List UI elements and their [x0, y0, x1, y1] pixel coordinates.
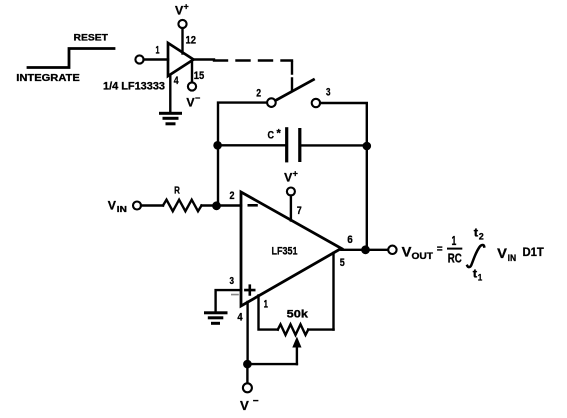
- pin number 12 (U2): [186, 34, 197, 46]
- potentiometer 50k: [278, 324, 308, 335]
- svg-text:V: V: [240, 398, 249, 413]
- svg-text:3: 3: [326, 87, 331, 99]
- fraction bar: [448, 248, 461, 250]
- minus sign (inverting input): [249, 204, 257, 207]
- switch S1 terminal 3: [312, 99, 320, 107]
- label INTEGRATE: [16, 73, 80, 84]
- label VOUT: [402, 244, 434, 262]
- V+ terminal (U1 pin 7): [287, 188, 295, 196]
- svg-text:1/4 LF13333: 1/4 LF13333: [103, 81, 165, 93]
- svg-text:IN: IN: [117, 205, 127, 214]
- label VIN: [108, 199, 127, 215]
- wire VIN terminal to resistor: [141, 204, 163, 206]
- pin number 2 (U1 inverting input): [230, 190, 235, 202]
- integral lower limit t1: [473, 267, 482, 283]
- svg-text:OUT: OUT: [412, 251, 434, 261]
- label 1/4 LF13333: [103, 81, 165, 93]
- V- terminal of U2: [188, 82, 196, 90]
- svg-text:=: =: [437, 244, 443, 255]
- integral upper limit t2: [474, 226, 484, 242]
- pin number 2 (switch): [256, 87, 261, 99]
- svg-text:−: −: [253, 396, 259, 407]
- svg-text:IN: IN: [508, 253, 516, 263]
- pin number 4 (U2): [174, 75, 179, 87]
- faint print artifact dash below pin 3 wire: [232, 294, 238, 296]
- pin number 3 (switch): [326, 87, 331, 99]
- svg-text:4: 4: [237, 312, 243, 324]
- svg-text:t: t: [474, 226, 478, 240]
- op-amp U1 LF351: [241, 192, 341, 306]
- label R: [174, 185, 180, 196]
- label V+ (top): [175, 2, 189, 18]
- svg-text:15: 15: [194, 70, 205, 82]
- wire node A to capacitor: [218, 144, 285, 146]
- wire resistor to summing junction: [202, 204, 242, 206]
- pin number 1 (U2): [156, 44, 160, 56]
- pin number 15 (U2): [194, 70, 205, 82]
- wire V+ to U1 pin 7: [290, 196, 292, 221]
- svg-text:+: +: [293, 169, 298, 179]
- svg-text:2: 2: [479, 232, 484, 242]
- V+ terminal of U2: [178, 20, 186, 28]
- wire V- dot to terminal: [246, 364, 248, 383]
- wiper arrow of 50k pot: [292, 337, 301, 365]
- wire U2 V- pin: [191, 62, 193, 82]
- label V- (bottom): [240, 396, 259, 413]
- wire node A down to summing junction: [217, 145, 219, 206]
- pin number 5 (U1): [340, 257, 345, 269]
- wire pin1 to U2: [144, 58, 168, 60]
- svg-text:C: C: [268, 130, 275, 142]
- control waveform step (reset/integrate): [28, 49, 114, 68]
- svg-text:RC: RC: [448, 251, 462, 266]
- wire pin 3 to ground: [216, 290, 241, 311]
- wire pot right to pin 5: [308, 328, 333, 330]
- dashed control line from U2 output to switch (horizontal): [214, 59, 292, 61]
- wire switch terminal 3 to right rail: [320, 103, 367, 146]
- output terminal VOUT: [388, 246, 396, 254]
- label V+ (U1): [284, 169, 298, 185]
- svg-text:1: 1: [452, 233, 457, 248]
- integral sign: [467, 245, 484, 267]
- svg-text:V: V: [186, 96, 194, 110]
- input terminal VIN: [133, 202, 141, 210]
- svg-text:INTEGRATE: INTEGRATE: [16, 73, 80, 84]
- wire node B down to output node: [366, 146, 368, 250]
- dashed control line (vertical drop to switch arm): [291, 63, 293, 92]
- svg-text:12: 12: [186, 34, 197, 46]
- pin number 6 (U1): [347, 234, 353, 246]
- equals sign: [437, 244, 443, 255]
- label V- (U2): [186, 93, 200, 110]
- svg-text:+: +: [184, 2, 189, 12]
- wire switch terminal 2 to left rail: [218, 103, 267, 146]
- wire pin 5 to pot right: [332, 253, 334, 330]
- svg-text:V: V: [497, 245, 507, 261]
- svg-text:−: −: [195, 93, 200, 103]
- wire U1 pin 4 down to V-: [246, 302, 248, 364]
- wire U2 pin 4 to ground: [169, 76, 171, 112]
- wire U1 output pin 6: [341, 249, 388, 251]
- node B junction dot (cap right / output rail): [363, 142, 372, 151]
- switch driver U2 1/4 LF13333 triangle: [168, 43, 194, 76]
- node A junction dot (summing node / cap left): [213, 141, 222, 150]
- wire capacitor to node B: [301, 144, 366, 146]
- label LF351: [272, 245, 298, 257]
- svg-text:5: 5: [340, 257, 345, 269]
- svg-text:D1T: D1T: [523, 245, 545, 259]
- summing junction dot: [212, 201, 221, 210]
- wire U2 output pin 15: [194, 58, 215, 60]
- plus sign (non-inverting input): [245, 286, 254, 295]
- svg-text:R: R: [174, 185, 180, 196]
- svg-text:7: 7: [297, 205, 302, 217]
- svg-text:1: 1: [264, 299, 268, 311]
- wire pin 1 to pot left: [259, 296, 278, 330]
- svg-text:2: 2: [230, 190, 235, 202]
- pin number 1 (U1): [264, 299, 268, 311]
- formula D1T (dt): [523, 245, 545, 259]
- pin number 3 (U1 non-inverting input): [230, 275, 235, 287]
- svg-text:4: 4: [174, 75, 179, 87]
- wire V+ to U2 pin 12: [181, 28, 183, 53]
- fraction denominator RC: [448, 251, 462, 266]
- label 50k: [287, 309, 309, 321]
- formula VIN: [497, 245, 516, 263]
- capacitor C*: [285, 127, 301, 162]
- svg-text:RESET: RESET: [74, 33, 109, 44]
- svg-text:LF351: LF351: [272, 245, 298, 257]
- svg-text:*: *: [277, 128, 282, 140]
- resistor R: [163, 200, 202, 212]
- svg-text:V: V: [108, 199, 116, 213]
- label RESET: [74, 33, 109, 44]
- svg-text:3: 3: [230, 275, 235, 287]
- svg-text:t: t: [473, 267, 477, 281]
- pin number 7 (U1): [297, 205, 302, 217]
- svg-text:V: V: [175, 4, 183, 18]
- svg-text:1: 1: [156, 44, 160, 56]
- label C*: [268, 128, 282, 142]
- V- junction dot: [243, 360, 252, 369]
- svg-text:6: 6: [347, 234, 353, 246]
- svg-text:1: 1: [478, 273, 483, 283]
- fraction numerator 1: [452, 233, 457, 248]
- switch S1 arm: [276, 80, 314, 101]
- ground (U2 pin 4): [159, 112, 182, 126]
- ground (U1 pin 3): [204, 311, 228, 325]
- svg-text:2: 2: [256, 87, 261, 99]
- svg-text:V: V: [284, 171, 292, 185]
- pin 1 input terminal of U2: [135, 55, 143, 63]
- pin number 4 (U1): [237, 312, 243, 324]
- output junction dot: [361, 245, 370, 254]
- switch S1 terminal 2: [267, 98, 276, 107]
- svg-text:50k: 50k: [287, 309, 309, 321]
- V- terminal (U1 pin 4): [243, 383, 252, 392]
- wire wiper to V- node: [247, 363, 297, 365]
